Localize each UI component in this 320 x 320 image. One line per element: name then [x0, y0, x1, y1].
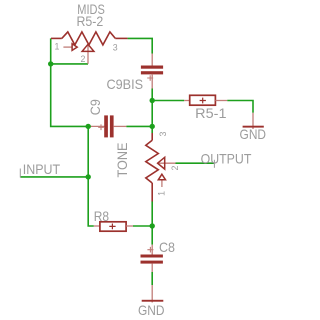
- wire INPUT rail: [88, 126, 94, 226]
- svg-text:R8: R8: [94, 208, 109, 224]
- junction C9 left: [86, 124, 91, 129]
- right pin: [215, 100, 227, 102]
- resistor R5-1: [184, 95, 227, 105]
- right pin: [126, 225, 133, 227]
- svg-text:1: 1: [156, 191, 166, 196]
- left pin: [184, 100, 190, 102]
- capacitor C9BIS: [141, 54, 163, 89]
- zigzag: [62, 32, 116, 45]
- bottom stub: [151, 183, 153, 202]
- svg-text:GND: GND: [240, 126, 267, 142]
- left stub: [51, 37, 62, 39]
- body: [190, 95, 216, 105]
- svg-text:GND: GND: [138, 302, 165, 318]
- wire top row from R5-2 pin3 to right rail: [128, 38, 153, 53]
- svg-text:3: 3: [158, 131, 168, 136]
- svg-text:C9: C9: [87, 99, 103, 115]
- potentiometer TONE: [146, 133, 176, 202]
- body: [100, 222, 126, 231]
- wiper triangle: [158, 157, 165, 169]
- wiper pin line: [87, 44, 89, 64]
- svg-text:OUTPUT: OUTPUT: [201, 151, 252, 167]
- plus sign: [98, 124, 104, 130]
- bottom plate: [141, 261, 163, 264]
- wire INPUT: [20, 176, 88, 178]
- bar: [142, 300, 164, 302]
- plus: [109, 224, 115, 230]
- trimmer arrow shaft: [63, 46, 72, 48]
- potentiometer R5-2: [51, 32, 128, 64]
- top plate: [141, 66, 163, 69]
- wiper triangle: [82, 44, 94, 51]
- pin: [252, 113, 254, 129]
- wire right rail C9BIS to junctions: [151, 89, 153, 134]
- wire C9 right to rail: [126, 125, 152, 127]
- bar: [243, 126, 264, 128]
- wire pot wiper row: [51, 63, 88, 65]
- top pin: [151, 54, 153, 66]
- wire TONE bottom to junction: [151, 202, 153, 245]
- trimmer arrow shaft: [161, 180, 163, 187]
- bottom pin: [151, 74, 153, 89]
- junction R8: [150, 223, 155, 228]
- capacitor C9: [88, 115, 126, 137]
- pin: [151, 285, 153, 303]
- ground GND right: [243, 113, 264, 129]
- top pin: [151, 245, 153, 255]
- top plate: [141, 255, 163, 258]
- svg-text:INPUT: INPUT: [23, 161, 61, 177]
- wire OUTPUT: [176, 162, 215, 164]
- plus sign: [147, 75, 153, 81]
- wire C8 to GND: [151, 272, 153, 285]
- svg-text:2: 2: [80, 54, 85, 64]
- plus sign: [147, 247, 153, 253]
- svg-text:3: 3: [113, 43, 118, 53]
- capacitor C8: [141, 245, 163, 272]
- wiper pin line: [158, 162, 176, 164]
- svg-text:2: 2: [170, 165, 180, 170]
- ground GND bottom: [142, 285, 164, 303]
- left pin: [94, 225, 100, 227]
- top stub: [151, 133, 153, 140]
- right plate: [110, 115, 114, 137]
- zigzag: [146, 140, 159, 183]
- wire R5-1 left: [152, 100, 184, 102]
- junction INPUT: [86, 174, 91, 179]
- trimmer arrow head: [158, 174, 165, 180]
- svg-text:1: 1: [54, 41, 59, 51]
- right pin: [114, 125, 127, 127]
- left plate: [104, 115, 108, 137]
- junction C9 branch: [150, 124, 155, 129]
- svg-text:C9BIS: C9BIS: [107, 76, 144, 92]
- resistor R8: [94, 222, 133, 231]
- wire R8 right to junction: [133, 225, 152, 227]
- svg-text:TONE: TONE: [114, 143, 130, 178]
- junction R5-1 branch: [150, 98, 155, 103]
- right stub: [115, 37, 127, 39]
- trimmer arrow head: [72, 44, 77, 51]
- svg-text:R5-2: R5-2: [77, 13, 104, 29]
- left pin: [88, 125, 104, 127]
- wire left rail from R5-2 pin1 down to C9 row: [51, 38, 88, 126]
- svg-text:C8: C8: [159, 239, 175, 255]
- svg-text:R5-1: R5-1: [195, 105, 227, 121]
- junction left rail wiper: [48, 61, 53, 66]
- bottom plate: [141, 71, 163, 74]
- label OUTPUT tick: [213, 160, 215, 168]
- bottom pin: [151, 264, 153, 272]
- wire R5-1 to GND corner: [227, 101, 253, 113]
- plus: [200, 98, 206, 104]
- label INPUT tick: [19, 169, 21, 178]
